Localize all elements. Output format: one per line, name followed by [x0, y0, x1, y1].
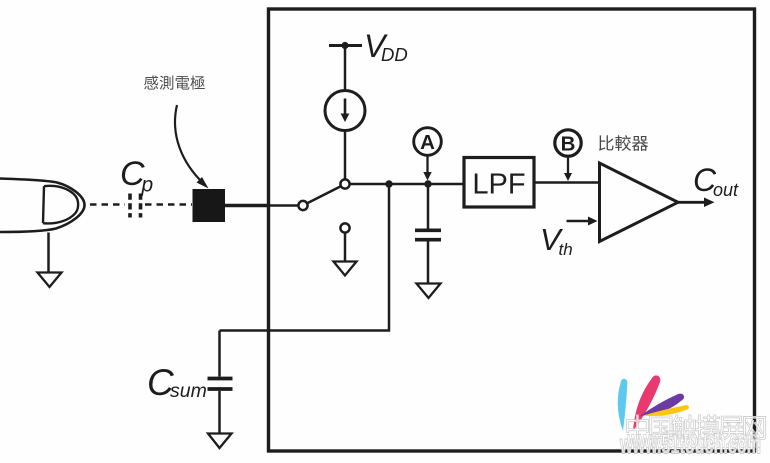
- label sensing electrode (CJK): [144, 75, 158, 89]
- fingernail: [43, 186, 78, 224]
- label VDD: [364, 28, 408, 65]
- watermark petal yellow: [643, 405, 689, 416]
- capacitor Csum: [208, 379, 233, 390]
- LPF block U1: [464, 158, 534, 208]
- svg-text:www.51touch.com: www.51touch.com: [626, 427, 761, 454]
- label Csum: [147, 362, 207, 403]
- wire finger to ground: [47, 233, 50, 273]
- Vth input arrow: [567, 220, 591, 222]
- ground (Csum): [208, 434, 232, 449]
- wire current source to switch pivot: [344, 131, 347, 180]
- watermark petal cyan: [618, 379, 628, 431]
- svg-text:out: out: [713, 180, 739, 200]
- current source I1: [325, 91, 365, 131]
- junction dot (node A): [424, 180, 431, 187]
- svg-text:B: B: [561, 133, 576, 156]
- output wire Cout: [678, 201, 707, 204]
- switch S1: [298, 201, 307, 210]
- ground (switch): [334, 262, 357, 276]
- finger: [0, 179, 85, 233]
- wire lower contact to ground: [344, 233, 347, 261]
- capacitor Cp (dashed plates): [130, 194, 141, 218]
- wire dashed finger to Cp: [90, 203, 125, 206]
- wire electrode to box: [225, 204, 268, 208]
- svg-text:p: p: [141, 174, 154, 197]
- wire dashed Cp to electrode: [145, 203, 192, 206]
- label Vth: [540, 222, 573, 259]
- ground (finger): [38, 273, 62, 288]
- svg-text:th: th: [559, 240, 573, 259]
- node A marker: [414, 128, 442, 156]
- watermark hanzi: [627, 415, 649, 440]
- switch lower contact: [340, 223, 349, 232]
- svg-text:DD: DD: [381, 44, 408, 65]
- label Cout: [693, 162, 739, 200]
- pointer arrow to electrode: [175, 105, 204, 184]
- VDD supply bar: [329, 44, 362, 47]
- svg-text:LPF: LPF: [472, 169, 525, 201]
- svg-text:sum: sum: [170, 380, 207, 402]
- wire VDD to current source: [344, 46, 347, 91]
- watermark petal purple: [640, 394, 684, 416]
- IC boundary box: [269, 9, 755, 451]
- wire to Csum: [220, 184, 390, 331]
- wire LPF to comparator: [534, 181, 599, 184]
- wire box edge to switch contact: [268, 204, 299, 207]
- wire main node line: [350, 183, 464, 186]
- node B marker: [555, 130, 581, 156]
- comparator U2: [600, 163, 679, 242]
- watermark petal pink: [633, 375, 660, 431]
- electrode (sensing pad): [193, 189, 226, 222]
- svg-text:A: A: [420, 131, 435, 154]
- label Cp: [120, 155, 153, 197]
- capacitor at node A: [427, 184, 430, 283]
- label comparator (CJK): [599, 135, 614, 150]
- junction dot: [385, 180, 392, 187]
- ground (node A cap): [417, 284, 441, 299]
